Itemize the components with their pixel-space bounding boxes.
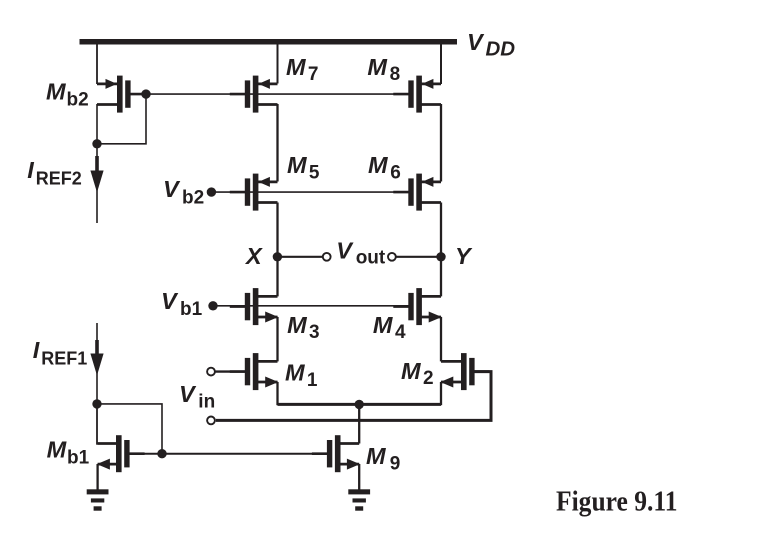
svg-text:1: 1 [307,370,318,391]
svg-text:6: 6 [390,163,401,184]
svg-text:M: M [367,54,387,80]
svg-text:b1: b1 [67,447,90,468]
svg-text:M: M [368,152,388,178]
svg-text:V: V [161,288,179,314]
svg-text:3: 3 [309,322,320,343]
svg-text:Figure 9.11: Figure 9.11 [556,487,678,518]
svg-text:M: M [285,360,305,386]
svg-text:M: M [286,54,306,80]
svg-text:4: 4 [395,322,406,343]
svg-text:M: M [46,79,66,105]
svg-text:M: M [366,443,386,469]
svg-text:I: I [27,157,34,183]
svg-text:V: V [163,176,181,202]
svg-text:9: 9 [390,454,401,475]
svg-text:Y: Y [455,243,473,269]
svg-text:M: M [287,312,307,338]
svg-text:7: 7 [308,64,319,85]
svg-text:2: 2 [423,368,434,389]
svg-text:b1: b1 [180,299,203,320]
svg-text:b2: b2 [182,187,204,208]
svg-text:in: in [198,392,215,413]
svg-text:I: I [33,337,40,363]
svg-text:M: M [373,312,393,338]
svg-text:V: V [179,381,197,407]
svg-text:DD: DD [486,37,516,60]
svg-text:8: 8 [390,64,401,85]
svg-text:M: M [401,358,421,384]
svg-text:REF2: REF2 [36,168,82,188]
svg-text:5: 5 [309,163,320,184]
svg-text:b2: b2 [67,90,89,111]
svg-text:M: M [47,436,67,462]
svg-text:V: V [336,238,354,264]
svg-text:REF1: REF1 [41,348,87,368]
svg-text:V: V [467,29,485,55]
svg-text:X: X [244,243,263,269]
svg-text:M: M [287,152,307,178]
svg-text:out: out [356,247,386,268]
